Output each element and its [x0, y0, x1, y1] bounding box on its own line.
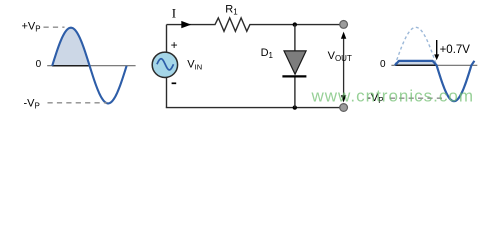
top rail wire with resistor zigzag: [167, 18, 340, 31]
input waveform positive lobe fill: [52, 28, 89, 66]
diode D1 cathode bar: [282, 75, 306, 77]
Vout arrow line: [343, 37, 345, 97]
Vout arrowhead down: [341, 95, 346, 102]
diode D1 triangle: [284, 51, 306, 74]
+0.7V pointer arrow line: [436, 40, 438, 55]
node junction top: [293, 22, 297, 26]
input waveform zero axis: [47, 65, 135, 67]
svg-text:0: 0: [36, 59, 42, 70]
+0.7V pointer arrowhead: [434, 54, 439, 60]
output clipped region fill: [396, 61, 436, 65]
input sine curve: [52, 28, 126, 104]
svg-text:+: +: [171, 38, 178, 52]
svg-text:I: I: [172, 5, 176, 20]
Vout arrowhead up: [341, 32, 346, 39]
-Vp dashed level line (output): [390, 97, 444, 99]
current arrowhead: [181, 21, 191, 28]
left branch wire upper: [166, 25, 168, 52]
AC source sine symbol: [157, 59, 174, 70]
input waveform axis dark chord under filled lobe: [52, 65, 89, 67]
left branch wire lower: [166, 78, 168, 108]
diode D1 wire lower: [294, 78, 296, 108]
output clipped waveform: [395, 61, 475, 101]
output terminal bottom: [340, 104, 348, 112]
svg-text:www.cntronics.com: www.cntronics.com: [311, 86, 474, 105]
+Vp dashed level line: [44, 26, 65, 28]
diode D1 wire upper: [294, 25, 296, 51]
output zero axis: [391, 64, 477, 66]
svg-text:+0.7V: +0.7V: [440, 44, 471, 56]
svg-text:0: 0: [380, 59, 386, 70]
node junction bottom: [293, 105, 297, 109]
output dashed would-be peak arc: [395, 27, 437, 65]
output axis dark segment under clipped fill: [395, 64, 437, 66]
-Vp dashed level line: [48, 102, 107, 104]
output terminal top: [340, 21, 348, 29]
AC source V1 circle: [152, 52, 177, 77]
minus sign: [172, 82, 177, 84]
bottom rail wire: [166, 107, 340, 109]
